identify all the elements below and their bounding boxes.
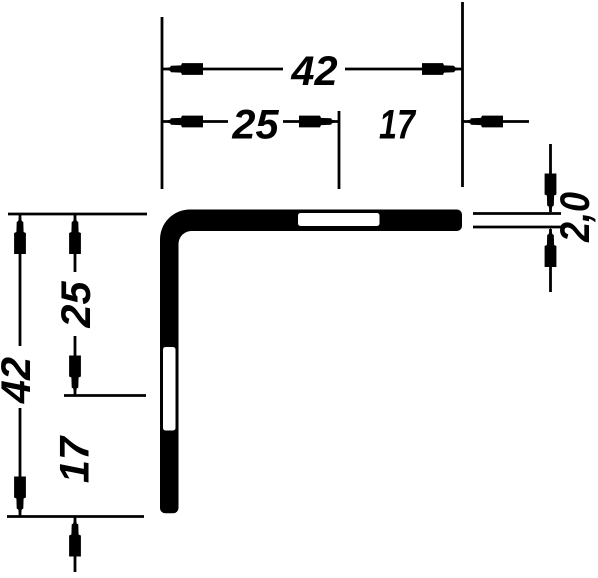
svg-text:42: 42	[0, 357, 39, 404]
svg-text:25: 25	[52, 281, 99, 329]
svg-text:17: 17	[379, 101, 416, 148]
svg-text:17: 17	[51, 435, 98, 483]
svg-text:25: 25	[231, 101, 279, 148]
svg-text:2,0: 2,0	[551, 192, 598, 243]
svg-text:42: 42	[290, 47, 337, 94]
